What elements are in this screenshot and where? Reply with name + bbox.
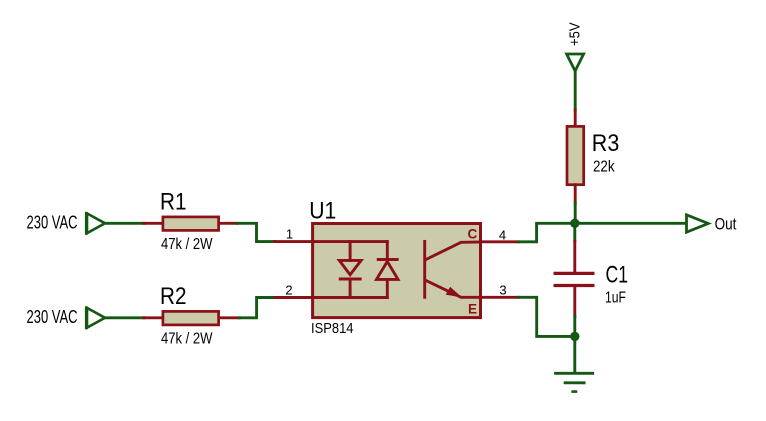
wire: R2 to U1 pin 2 (jog up) (239, 298, 275, 318)
resistor R1 (144, 217, 237, 231)
svg-text:1uF: 1uF (605, 289, 626, 306)
wire: ground node to ground symbol (573, 336, 576, 372)
optocoupler U1 (ISP814) body (313, 224, 481, 318)
wire: Out node down to C1 (573, 223, 576, 241)
diode D-right (cathode up) inside U1 (377, 242, 399, 298)
wire: input1 terminal to R1 (105, 222, 144, 225)
svg-text:C: C (468, 227, 478, 242)
wire: pin 4 jog up to Out node (518, 223, 574, 242)
svg-text:R3: R3 (592, 130, 620, 157)
svg-text:C1: C1 (606, 261, 629, 288)
svg-text:47k / 2W: 47k / 2W (161, 236, 213, 253)
power terminal +5V (567, 54, 584, 71)
svg-text:1: 1 (286, 226, 293, 241)
transistor Q (phototransistor of U1, with C/E leads and emitter arrow) (425, 241, 481, 297)
pin 2 (U1) (275, 296, 312, 299)
wire: C1 to ground node (573, 317, 576, 337)
terminal input row 2 (230 VAC) (86, 308, 105, 328)
pin 3 (U1) (481, 296, 519, 299)
svg-text:ISP814: ISP814 (311, 320, 354, 337)
svg-text:230 VAC: 230 VAC (27, 307, 78, 327)
capacitor C1 (555, 241, 593, 317)
wire: Out node to Out terminal (575, 222, 685, 225)
svg-text:R1: R1 (160, 188, 187, 215)
wire: internal LED top rail (U1) (313, 240, 388, 243)
svg-text:22k: 22k (593, 159, 615, 176)
pin 1 (U1) (275, 240, 313, 243)
wire: +5V to R3 (574, 71, 577, 110)
svg-text:U1: U1 (309, 198, 336, 225)
ground (556, 373, 593, 391)
terminal Out (687, 215, 709, 232)
wire: R1 to U1 pin 1 (jog down) (237, 223, 275, 241)
wire: internal LED bottom rail (U1) (313, 296, 388, 299)
resistor R3 (567, 110, 584, 203)
svg-text:2: 2 (285, 283, 292, 298)
diode D-left (cathode down) inside U1 (339, 242, 361, 298)
node ground junction (570, 332, 579, 341)
svg-text:4: 4 (499, 228, 506, 243)
svg-text:R2: R2 (160, 283, 187, 310)
svg-text:E: E (468, 302, 477, 317)
pin 4 (U1) (481, 240, 519, 243)
wire: pin 3 jog down to ground node (518, 297, 574, 336)
node Out junction (570, 219, 579, 228)
svg-text:47k / 2W: 47k / 2W (161, 331, 213, 348)
svg-text:+5V: +5V (567, 23, 584, 47)
svg-text:230 VAC: 230 VAC (27, 212, 78, 232)
svg-text:3: 3 (499, 283, 506, 298)
svg-text:Out: Out (715, 215, 737, 233)
resistor R2 (144, 311, 240, 325)
wire: input2 terminal to R2 (105, 316, 144, 319)
terminal input row 1 (230 VAC) (86, 213, 105, 233)
wire: R3 to Out node (574, 203, 577, 223)
